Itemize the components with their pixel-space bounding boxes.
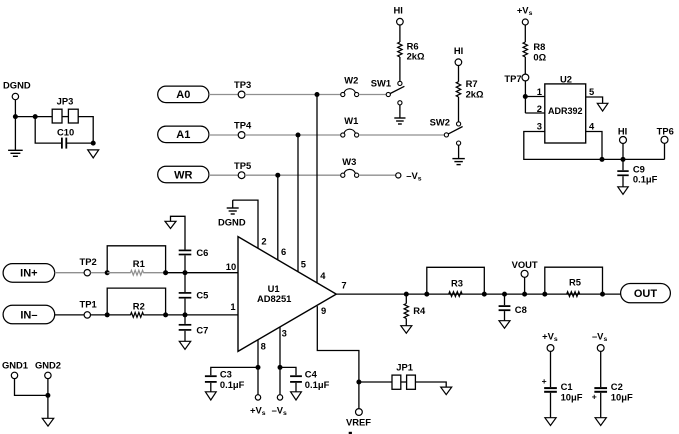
pin 3 label U1	[282, 328, 287, 339]
wire JP3 to right corner	[78, 117, 93, 144]
op-amp U1 name	[257, 293, 291, 304]
pin 4 label U1	[320, 270, 326, 281]
resistor R2	[131, 313, 144, 318]
pin 1 label U1	[230, 301, 235, 312]
svg-text:DGND: DGND	[3, 79, 31, 90]
switch SW2 label	[430, 117, 450, 128]
svg-text:0.1μF: 0.1μF	[220, 379, 245, 390]
net -Vs label (C2)	[592, 331, 607, 344]
capacitor C8	[499, 306, 511, 310]
junction R2 right	[163, 312, 168, 317]
capacitor C5 label	[196, 289, 208, 300]
resistor R4 label	[413, 305, 426, 316]
wire C2 to ground	[600, 393, 602, 418]
wire U2 pin4 down	[586, 132, 602, 160]
wire C10 to corner junction	[67, 142, 94, 144]
svg-text:2kΩ: 2kΩ	[407, 51, 425, 62]
wire HI to R6	[399, 25, 401, 42]
resistor R5 bypass loop	[545, 267, 603, 294]
capacitor C6	[179, 250, 192, 254]
jumper W1	[341, 129, 359, 137]
terminal HI (R7)	[455, 59, 462, 66]
ground (triangle) below C2	[595, 418, 606, 426]
pin 8 label U1	[261, 341, 266, 352]
ground (triangle) below C9	[618, 187, 628, 195]
wire C9 to ground	[622, 176, 624, 186]
svg-text:GND1: GND1	[2, 359, 28, 370]
wire U1 pin3 down	[279, 327, 281, 395]
resistor R5	[567, 292, 580, 297]
connector A1	[158, 126, 209, 143]
wire DGND to JP3	[15, 116, 52, 118]
resistor R5 label	[569, 277, 581, 288]
wire TP7 to junction	[524, 81, 526, 113]
wire TP2 to junction	[91, 272, 108, 274]
capacitor C1	[544, 388, 557, 392]
switch SW1 throw to R6	[398, 81, 402, 85]
ground (earth) below DGND	[8, 150, 23, 156]
svg-text:2: 2	[537, 103, 542, 114]
wire C5 upper	[184, 273, 186, 292]
svg-text:HI: HI	[394, 4, 403, 15]
jumper JP1 label	[396, 361, 413, 372]
svg-text:SW1: SW1	[371, 78, 391, 89]
jumper JP3 label	[57, 96, 74, 107]
junction A0 to pin4	[315, 92, 320, 97]
svg-text:A1: A1	[176, 129, 190, 141]
svg-text:4: 4	[589, 120, 595, 131]
net -Vs label (pin3)	[272, 404, 287, 417]
capacitor C10 label	[57, 127, 74, 138]
junction R3 right	[482, 292, 487, 297]
svg-text:OUT: OUT	[634, 288, 658, 300]
wire SW1 to ground	[399, 105, 401, 118]
junction R1 left	[105, 270, 110, 275]
svg-text:WR: WR	[174, 169, 192, 181]
svg-text:W2: W2	[344, 75, 358, 86]
resistor R7 label	[466, 78, 478, 89]
terminal GND1 label	[2, 359, 28, 370]
wire TP5 to W3	[245, 174, 341, 176]
junction WR to pin6	[275, 173, 280, 178]
junction R4	[404, 292, 409, 297]
wire HI to rail	[622, 144, 624, 160]
resistor R6	[398, 42, 402, 57]
net +Vs label (C1)	[542, 331, 558, 344]
resistor R6 label	[407, 40, 419, 51]
capacitor C3 value	[220, 379, 245, 390]
svg-text:R7: R7	[466, 78, 478, 89]
junction at DGND column	[13, 114, 18, 119]
capacitor C3 label	[220, 369, 232, 380]
wire R1 to U1 pin10	[166, 272, 238, 274]
ground (triangle) below C10	[88, 150, 99, 158]
connector A0	[158, 86, 209, 103]
svg-text:HI: HI	[618, 126, 627, 137]
connector IN+	[3, 264, 55, 283]
testpoint TP2 label	[79, 256, 96, 267]
svg-text:TP4: TP4	[234, 120, 252, 131]
terminal HI (R6)	[397, 18, 404, 25]
capacitor C7 label	[196, 325, 208, 336]
testpoint TP3 label	[234, 79, 251, 90]
terminal HI (C9)	[620, 137, 627, 144]
wire C5 lower	[184, 299, 186, 315]
junction pin8	[256, 365, 261, 370]
svg-text:1: 1	[537, 86, 542, 97]
node HI label (C9)	[618, 126, 627, 137]
svg-text:SW2: SW2	[430, 117, 450, 128]
junction C5/C7	[183, 312, 188, 317]
wire IN- to TP1	[55, 314, 84, 316]
testpoint TP7	[522, 74, 529, 81]
terminal -Vs (W3)	[396, 173, 401, 178]
testpoint TP5 label	[234, 160, 251, 171]
resistor R6 value	[407, 51, 425, 62]
resistor R8	[523, 42, 527, 57]
terminal +Vs (R8)	[522, 19, 528, 25]
wire TP1 to junction	[91, 314, 108, 316]
svg-text:GND2: GND2	[35, 359, 61, 370]
wire C8 down	[504, 294, 506, 305]
terminal VREF	[356, 409, 363, 416]
wire WR to TP5	[209, 174, 238, 176]
pin 3 label U2	[537, 120, 542, 131]
wire into R2	[107, 314, 131, 316]
testpoint TP4	[238, 132, 245, 139]
svg-text:R1: R1	[133, 258, 145, 269]
capacitor C2	[594, 388, 607, 392]
junction HI rail	[621, 157, 626, 162]
wire C1 to ground	[550, 393, 552, 418]
wire C6 to IN+ row	[184, 255, 186, 272]
wire R1 to junction	[143, 272, 165, 274]
svg-text:8: 8	[261, 341, 266, 352]
ground (triangle) below C3	[205, 392, 216, 400]
wire R8 to TP7	[524, 57, 526, 74]
capacitor C1 value	[561, 391, 583, 402]
testpoint TP6 label	[657, 126, 674, 137]
svg-text:4: 4	[320, 270, 326, 281]
resistor R8 label	[533, 41, 545, 52]
svg-text:10: 10	[226, 261, 236, 272]
capacitor C5	[179, 293, 192, 298]
junction R5 left	[542, 292, 547, 297]
capacitor C9 label	[633, 164, 645, 175]
wire C3 to ground	[210, 383, 212, 392]
wire U1 pin7 output	[336, 293, 620, 295]
wire TP3 to W2	[245, 94, 341, 96]
switch SW1 label	[371, 78, 391, 89]
terminal -Vs (C2)	[597, 345, 604, 352]
svg-text:R3: R3	[451, 278, 463, 289]
ground (triangle) above C6	[165, 221, 176, 228]
ground (triangle) at JP1	[441, 387, 452, 395]
capacitor C6 label	[196, 247, 208, 258]
connector IN&#8211;	[3, 305, 55, 324]
capacitor C8 label	[515, 304, 527, 315]
wire C10 branch down-left	[35, 117, 61, 144]
junction C5/C6 top	[183, 270, 188, 275]
capacitor C7	[179, 325, 192, 330]
resistor R1 label	[133, 258, 145, 269]
wire C6 top elbow	[171, 216, 186, 249]
testpoint TP4 label	[234, 120, 252, 131]
pin 6 label U1	[281, 246, 286, 257]
capacitor C4 label	[305, 369, 318, 380]
switch SW1 throw to ground	[398, 101, 402, 105]
wire GND1 to junction	[15, 379, 48, 396]
wire W2 to SW1	[359, 94, 387, 96]
switch SW2 throw to R7	[457, 122, 461, 126]
testpoint TP1	[84, 312, 90, 318]
junction GND	[45, 393, 50, 398]
wire -Vs to C2	[600, 351, 602, 387]
jumper W3	[341, 169, 359, 177]
svg-text:3: 3	[537, 120, 542, 131]
ground (triangle) below C1	[545, 418, 556, 426]
svg-text:A0: A0	[176, 89, 190, 101]
ground (triangle) below C7	[179, 341, 190, 349]
net +Vs label (R8)	[517, 5, 533, 18]
wire C4 to ground	[295, 383, 297, 392]
wire C8 to ground	[504, 311, 506, 320]
junction VREF/JP1	[356, 380, 361, 385]
capacitor C2 plus	[592, 392, 597, 402]
IC U2 ADR392 box	[545, 84, 586, 143]
pin 5 label U2	[589, 86, 594, 97]
wire pin8 to C3	[211, 367, 258, 375]
op-amp U1 body	[238, 237, 336, 352]
svg-text:W1: W1	[344, 115, 358, 126]
svg-text:U2: U2	[560, 74, 572, 85]
wire W3 to -Vs terminal	[359, 174, 396, 176]
terminal DGND	[12, 93, 18, 99]
testpoint TP3	[238, 91, 245, 98]
wire GND junction to ground	[47, 395, 49, 418]
svg-text:ADR392: ADR392	[548, 106, 583, 116]
resistor R3 bypass loop	[427, 267, 485, 294]
capacitor C9 value	[633, 174, 658, 185]
switch SW2 pole	[444, 133, 448, 137]
wire U1 pin9 to VREF node	[317, 306, 359, 408]
connector WR	[158, 166, 209, 183]
junction C8	[502, 292, 507, 297]
terminal GND1	[11, 372, 17, 378]
svg-text:IN–: IN–	[20, 309, 37, 321]
wire C7 to ground	[184, 331, 186, 341]
capacitor C10	[62, 138, 66, 149]
node DGND label	[3, 79, 31, 90]
terminal GND2 label	[35, 359, 61, 370]
wire JP3 inner gap	[62, 116, 68, 118]
svg-text:C7: C7	[196, 325, 208, 336]
testpoint TP1 label	[79, 298, 96, 309]
terminal +Vs (pin8)	[255, 395, 260, 400]
svg-text:6: 6	[281, 246, 286, 257]
node VREF label	[346, 417, 371, 428]
svg-text:IN+: IN+	[20, 268, 37, 280]
wire IN+ to TP2	[55, 272, 84, 274]
svg-text:R8: R8	[533, 41, 545, 52]
svg-text:0.1μF: 0.1μF	[633, 174, 658, 185]
wire U2 pin3 to bottom rail	[524, 132, 665, 160]
wire JP1 inner gap	[401, 381, 407, 383]
wire C7 upper	[184, 315, 186, 324]
wire HI to R7	[458, 66, 460, 82]
jumper W2 label	[344, 75, 358, 86]
svg-text:TP2: TP2	[79, 256, 96, 267]
junction U2 pin1/pin2	[523, 94, 528, 99]
junction pin4 rail	[600, 157, 605, 162]
svg-text:10μF: 10μF	[561, 391, 583, 402]
svg-text:+: +	[592, 392, 597, 402]
wire junction to JP1	[359, 381, 392, 383]
pin 7 label U1	[341, 280, 346, 291]
resistor R7 value	[466, 88, 484, 99]
svg-text:AD8251: AD8251	[257, 293, 291, 304]
svg-text:TP3: TP3	[234, 79, 251, 90]
wire DGND vertical	[14, 100, 16, 150]
svg-text:C5: C5	[196, 289, 208, 300]
ground (triangle) below C4	[291, 392, 302, 400]
resistor R8 value	[533, 51, 546, 62]
wire A0 to TP3	[209, 94, 238, 96]
wire +Vs to C1	[550, 351, 552, 387]
wire R2 to junction	[143, 314, 165, 316]
wire into R1	[107, 272, 131, 274]
wire A1 junction to U1 pin5	[297, 135, 299, 272]
junction R3 left	[424, 292, 429, 297]
svg-text:0Ω: 0Ω	[533, 51, 546, 62]
ground (triangle) below GND	[42, 418, 53, 426]
junction left of JP3	[33, 114, 38, 119]
wire VOUT down	[524, 277, 526, 294]
terminal GND2	[45, 372, 51, 378]
resistor R1 bypass loop	[107, 246, 165, 273]
svg-text:0.1μF: 0.1μF	[305, 379, 330, 390]
capacitor C2 value	[611, 391, 633, 402]
svg-text:C6: C6	[196, 247, 208, 258]
svg-text:2kΩ: 2kΩ	[466, 88, 484, 99]
jumper JP3	[52, 109, 78, 123]
jumper W3 label	[342, 156, 356, 167]
svg-text:TP1: TP1	[79, 298, 96, 309]
wire R2 to U1 pin1	[166, 314, 238, 316]
resistor R3 label	[451, 278, 463, 289]
wire JP1 to ground	[415, 382, 446, 387]
svg-text:TP6: TP6	[657, 126, 674, 137]
svg-text:7: 7	[341, 280, 346, 291]
svg-text:R4: R4	[413, 305, 426, 316]
ground (earth) below SW2	[452, 159, 464, 165]
op-amp U1 label	[268, 283, 280, 294]
svg-text:9: 9	[321, 305, 326, 316]
testpoint TP2	[84, 270, 90, 276]
junction VOUT	[522, 292, 527, 297]
jumper W1 label	[344, 115, 358, 126]
svg-text:C8: C8	[515, 304, 527, 315]
resistor R1	[131, 270, 144, 275]
capacitor C3	[205, 376, 217, 382]
wire A0 junction to U1 pin4	[316, 95, 318, 284]
ground (earth) below SW1	[394, 118, 405, 124]
svg-text:JP1: JP1	[396, 361, 413, 372]
svg-text:VREF: VREF	[346, 417, 371, 428]
IC U2 label	[560, 74, 572, 85]
switch SW2 arm	[446, 127, 462, 135]
testpoint VOUT label	[512, 259, 538, 270]
terminal VOUT	[521, 270, 528, 277]
switch SW1 pole	[386, 92, 390, 96]
svg-text:DGND: DGND	[218, 216, 246, 227]
junction pin3	[278, 365, 283, 370]
switch SW2 throw to ground	[457, 141, 461, 145]
node HI label (R6)	[394, 4, 403, 15]
wire rail to C9	[622, 159, 624, 170]
pin 2 label U1	[261, 236, 266, 247]
switch SW1 arm	[388, 86, 404, 94]
svg-text:TP5: TP5	[234, 160, 251, 171]
svg-text:+: +	[542, 376, 547, 386]
capacitor C4 value	[305, 379, 330, 390]
ground (triangle) below C8	[499, 321, 510, 329]
capacitor C9	[617, 171, 628, 175]
svg-text:JP3: JP3	[57, 96, 74, 107]
wire pin3 to C4	[280, 367, 296, 375]
junction R2 left	[105, 312, 110, 317]
ground (triangle) below R4	[401, 326, 412, 334]
resistor R3	[449, 292, 462, 297]
pin 2 label U2	[537, 103, 542, 114]
wire WR junction to U1 pin6	[277, 175, 279, 260]
wire to U2 pin1	[525, 96, 545, 98]
wire to U2 pin2	[525, 112, 545, 114]
wire +Vs to R8	[524, 25, 526, 42]
terminal +Vs (C1)	[547, 345, 554, 352]
wire W1 to SW2	[359, 134, 445, 136]
wire U2 pin5 to ground	[586, 97, 603, 103]
svg-text:5: 5	[589, 86, 594, 97]
testpoint TP5	[238, 172, 245, 179]
pin 4 label U2	[589, 120, 595, 131]
svg-text:10μF: 10μF	[611, 391, 633, 402]
pin 1 label U2	[537, 86, 542, 97]
capacitor C1 plus	[542, 376, 547, 386]
svg-text:W3: W3	[342, 156, 356, 167]
resistor R7	[456, 82, 460, 97]
svg-text:R5: R5	[569, 277, 581, 288]
connector OUT	[621, 284, 671, 303]
svg-text:TP7: TP7	[504, 73, 521, 84]
capacitor C1 label	[561, 381, 573, 392]
svg-text:VOUT: VOUT	[512, 259, 538, 270]
testpoint TP6	[661, 136, 668, 143]
svg-text:C10: C10	[57, 127, 74, 138]
junction R1 right	[163, 270, 168, 275]
wire A1 to TP4	[209, 134, 238, 136]
resistor R2 label	[133, 300, 145, 311]
ground (triangle) at U2 pin5	[597, 103, 608, 111]
junction below JP3 right	[91, 141, 96, 146]
resistor R4	[404, 294, 408, 325]
partial mark below VREF	[349, 432, 352, 434]
wire U1 pin8 down	[257, 340, 259, 395]
node DGND label at U1	[218, 216, 246, 227]
net +Vs label (pin8)	[250, 404, 266, 417]
wire R6 to SW1	[399, 57, 401, 81]
junction R5 right	[600, 292, 605, 297]
